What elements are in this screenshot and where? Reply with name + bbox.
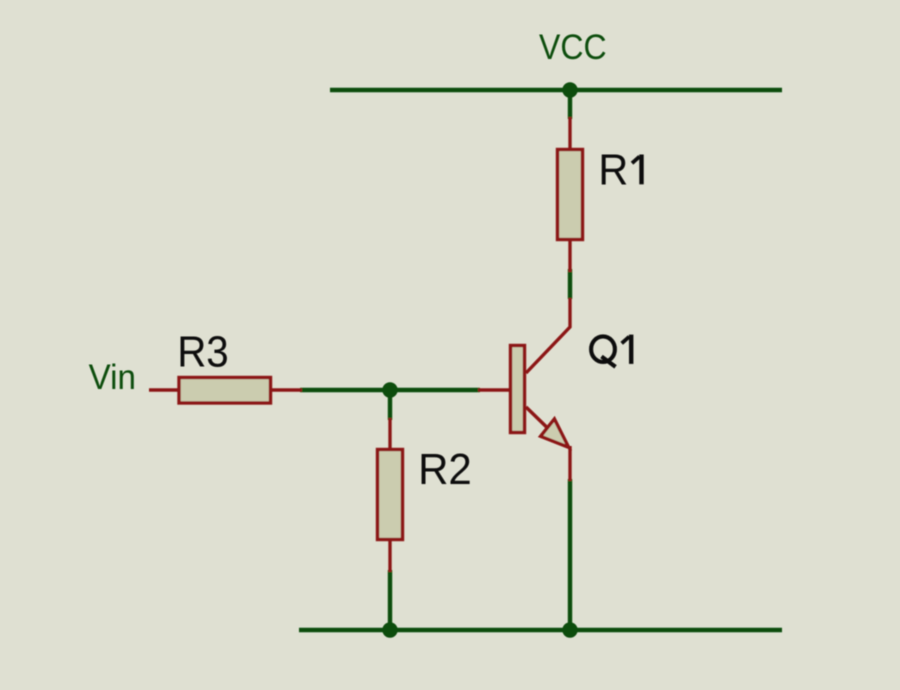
svg-text:R3: R3: [177, 328, 229, 377]
svg-text:Vin: Vin: [89, 358, 136, 397]
svg-text:R: R: [598, 145, 628, 194]
svg-text:R2: R2: [418, 445, 472, 494]
svg-text:VCC: VCC: [539, 28, 607, 67]
